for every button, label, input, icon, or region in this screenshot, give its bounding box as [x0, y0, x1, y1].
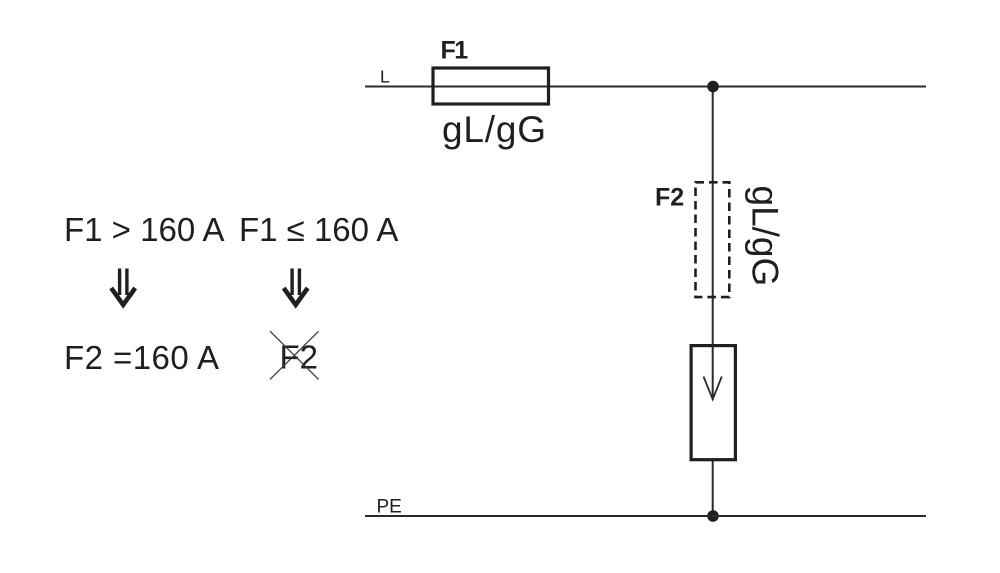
wire PE line — [365, 515, 926, 517]
svg-text:F2: F2 — [280, 338, 319, 375]
svg-text:F1 ≤ 160 A: F1 ≤ 160 A — [239, 211, 398, 248]
surge arrester box — [691, 346, 735, 460]
svg-text:PE: PE — [377, 496, 402, 517]
svg-text:L: L — [380, 66, 390, 86]
node junction on L — [707, 81, 719, 93]
wire arrester to PE — [712, 461, 714, 516]
arrowhead inside arrester — [704, 377, 722, 400]
wire L line — [365, 86, 926, 88]
fuse F1 — [433, 68, 549, 104]
cross line 1 — [270, 331, 319, 379]
svg-text:F1 > 160 A: F1 > 160 A — [64, 211, 225, 248]
fuse F2 dashed — [696, 182, 730, 297]
cross line 2 — [270, 331, 319, 379]
node junction on PE — [707, 510, 719, 522]
svg-text:F2: F2 — [655, 184, 684, 212]
implication arrow 1 — [111, 269, 135, 305]
svg-text:gL/gG: gL/gG — [442, 109, 547, 150]
implication arrow 2 — [284, 269, 308, 305]
svg-text:F2 =160 A: F2 =160 A — [64, 339, 219, 376]
wire vertical branch — [712, 87, 714, 400]
svg-text:gL/gG: gL/gG — [744, 186, 785, 287]
svg-text:F1: F1 — [441, 36, 469, 64]
